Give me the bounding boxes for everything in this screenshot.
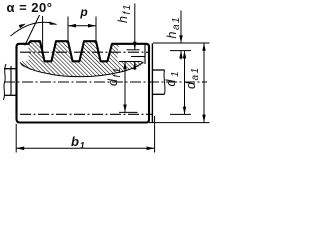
right end face outer line <box>151 43 153 122</box>
angle dimension alpha <box>25 15 40 46</box>
section boundary (break-out wavy line) <box>20 62 144 77</box>
svg-text:p: p <box>79 5 87 19</box>
left shaft stub <box>4 68 17 70</box>
dimension h_f1 <box>134 4 136 50</box>
right break line <box>164 70 165 94</box>
dimension d_1 <box>184 51 186 115</box>
thread runout inner edge <box>144 44 146 64</box>
hatch: sectioned thread area <box>21 41 144 76</box>
dimension h_a1 <box>180 11 182 44</box>
right shaft stub <box>152 69 164 71</box>
dimension p <box>68 17 96 41</box>
left break line <box>3 64 6 100</box>
dimension d_f1 <box>124 62 126 113</box>
pitch line top (dash-dot) <box>20 51 150 53</box>
svg-text:α = 20°: α = 20° <box>7 0 53 15</box>
thread runout lines at right end <box>131 56 145 58</box>
dimension d_a1 <box>203 43 205 122</box>
pitch line bottom (dash-dot) <box>20 113 152 115</box>
dimension b_1 <box>15 124 17 153</box>
worm body outline <box>17 41 150 122</box>
axis centerline <box>4 81 207 83</box>
